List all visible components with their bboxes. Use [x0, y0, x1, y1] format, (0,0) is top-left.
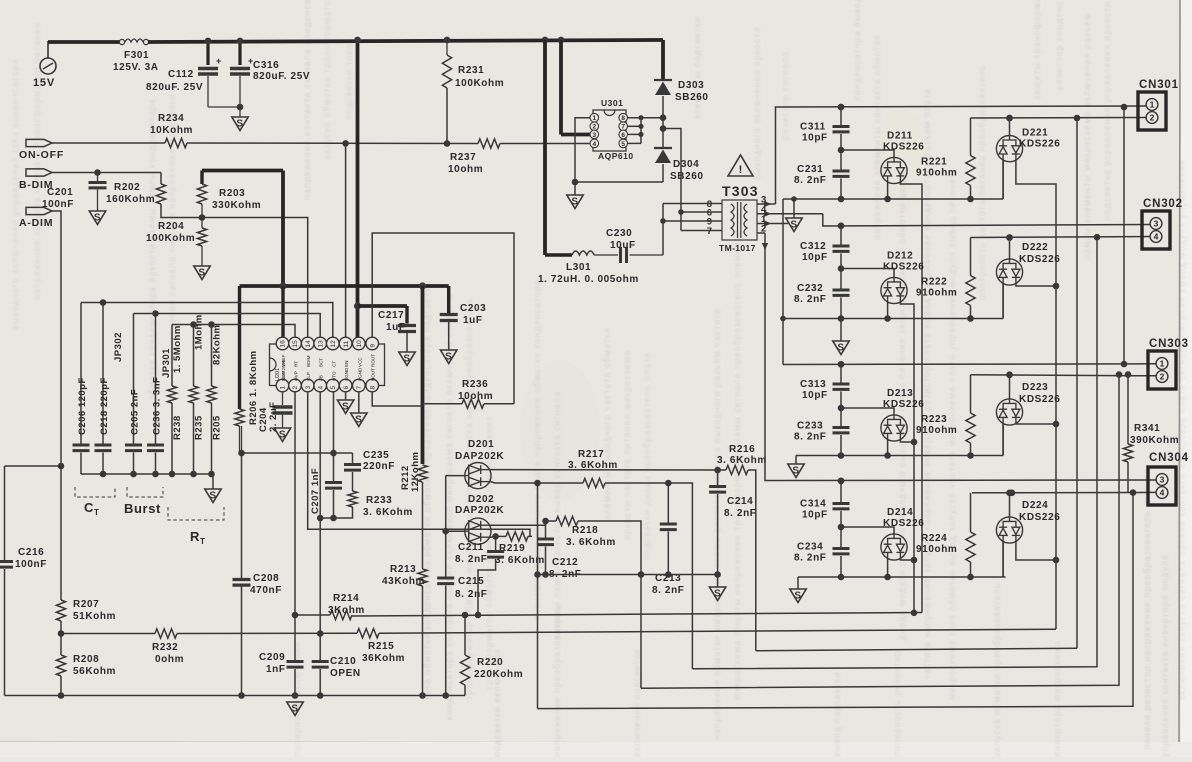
svg-text:R341: R341	[1134, 423, 1160, 434]
thick VCC vertical to U201 pin10	[356, 40, 360, 338]
svg-text:R222: R222	[921, 277, 947, 288]
svg-text:C230: C230	[606, 228, 632, 239]
capacitor C236 3.3nF	[155, 314, 157, 444]
wire pin8 NOUT	[372, 392, 422, 406]
svg-text:10: 10	[356, 340, 363, 348]
svg-text:9: 9	[369, 344, 376, 348]
svg-text:16: 16	[280, 340, 287, 348]
capacitor C210 OPEN	[312, 660, 329, 663]
connector ON-OFF	[26, 139, 52, 146]
svg-text:R203: R203	[219, 188, 245, 199]
svg-text:S: S	[236, 119, 243, 130]
fuse F301	[48, 40, 120, 44]
capacitor C312 10pF	[833, 245, 850, 248]
connector CN302	[1142, 211, 1170, 249]
wire D202 top-right to R218	[491, 521, 546, 525]
svg-text:160Kohm: 160Kohm	[106, 194, 155, 205]
svg-text:C232: C232	[797, 283, 823, 294]
RT rail to pin15	[172, 325, 295, 338]
capacitor C212 8.2nF	[545, 521, 547, 538]
svg-text:56Kohm: 56Kohm	[73, 666, 116, 677]
svg-text:C201: C201	[47, 187, 73, 198]
thick VREF rail	[240, 284, 449, 288]
wire D212 bottom-right to L1	[900, 302, 914, 613]
ground (bottom rail)	[294, 696, 296, 704]
svg-text:D223: D223	[1022, 382, 1048, 393]
svg-text:KDS226: KDS226	[883, 518, 924, 529]
wire D221 bottom-left	[1002, 160, 1004, 199]
svg-text:2: 2	[1160, 372, 1165, 382]
svg-text:R237: R237	[450, 152, 476, 163]
svg-text:T: T	[200, 537, 206, 546]
wire pin3 FB column	[308, 392, 530, 536]
svg-text:7: 7	[707, 226, 712, 237]
svg-text:PGND: PGND	[357, 367, 362, 381]
resistor R224 910ohm	[970, 493, 972, 532]
svg-text:подсветки тока: подсветки тока	[344, 43, 354, 120]
svg-text:C112: C112	[168, 69, 194, 80]
svg-text:390Kohm: 390Kohm	[1130, 435, 1179, 446]
svg-text:SEM2006: SEM2006	[281, 360, 287, 381]
ground rail bottom left	[5, 695, 466, 697]
wire D222 bottom-right joins va	[1016, 283, 1056, 286]
dual diode D213 KDS226	[841, 408, 894, 415]
capacitor C211 8.2nF	[495, 536, 497, 550]
thick branch to C217	[358, 304, 408, 308]
svg-text:C214: C214	[727, 496, 753, 507]
CT rail to pin12	[81, 303, 333, 338]
row2 rail	[783, 318, 1003, 320]
svg-text:C218 220pF: C218 220pF	[99, 377, 110, 435]
svg-text:ROUT: ROUT	[371, 354, 376, 367]
svg-text:D304: D304	[673, 159, 699, 170]
resistor R231 100Kohm	[444, 37, 451, 44]
resistor R236 10ohm	[423, 403, 463, 405]
resistor R220 220Kohm	[462, 612, 469, 619]
svg-text:910ohm: 910ohm	[916, 168, 957, 179]
svg-text:R214: R214	[333, 593, 359, 604]
wire row4 cap column	[840, 481, 842, 504]
wire BDIM net to pin14	[202, 218, 308, 338]
resistor R237 10ohm	[478, 139, 500, 148]
svg-text:D303: D303	[678, 80, 704, 91]
svg-text:вывод подсветки: вывод подсветки	[832, 672, 842, 757]
wire to L6	[537, 483, 539, 709]
resistor R208 56Kohm	[56, 655, 65, 676]
diode D304 SB260	[654, 147, 672, 149]
svg-text:D212: D212	[887, 251, 913, 262]
capacitor C233 8. 2nF	[840, 408, 842, 428]
svg-text:3. 6Kohm: 3. 6Kohm	[717, 455, 767, 466]
row4 return line from R224	[972, 491, 1156, 493]
resistor R341 390Kohm	[1127, 375, 1129, 445]
resistor R205 82Kohm	[211, 325, 213, 387]
ground (row4 rail)	[797, 577, 799, 589]
bank bottom rail	[81, 473, 213, 475]
optocoupler U301 AQP610	[593, 110, 626, 151]
U301 pin1 wire to ground and D304	[575, 118, 590, 182]
svg-text:4: 4	[592, 141, 596, 148]
row3 hot line	[783, 363, 1156, 366]
svg-text:S: S	[571, 197, 578, 208]
wire EN tap to pin11	[342, 140, 349, 147]
svg-text:5: 5	[621, 141, 625, 148]
svg-text:11: 11	[343, 340, 350, 347]
svg-text:CLP: CLP	[306, 372, 311, 381]
svg-text:R221: R221	[921, 157, 947, 168]
svg-text:8: 8	[369, 386, 376, 390]
svg-text:включения запуска сигнала пане: включения запуска сигнала панели контакт…	[1177, 159, 1187, 700]
svg-text:BDIM: BDIM	[306, 355, 311, 367]
svg-text:C211: C211	[458, 542, 484, 553]
svg-text:управления контакта инвертора: управления контакта инвертора модуля	[1160, 554, 1170, 757]
wire D303/D304 node to T303 pin6/7	[663, 129, 681, 231]
svg-text:R205: R205	[212, 415, 223, 440]
svg-text:36Kohm: 36Kohm	[362, 653, 405, 664]
svg-text:D222: D222	[1022, 242, 1048, 253]
wire vd return3 down	[641, 375, 1119, 689]
svg-text:12Kohm: 12Kohm	[410, 452, 421, 492]
wire D223 bottom-right joins va	[1016, 422, 1056, 425]
svg-text:1nF: 1nF	[266, 664, 286, 675]
svg-text:5: 5	[330, 386, 337, 390]
svg-text:R204: R204	[158, 221, 184, 232]
svg-text:R232: R232	[152, 642, 178, 653]
ground (U301 pin1 net)	[574, 182, 576, 195]
svg-text:43Kohm: 43Kohm	[382, 576, 425, 587]
wire D201 left to C215 column	[446, 475, 465, 477]
svg-text:панели резистор напряжение пре: панели резистор напряжение преобразовате…	[1142, 468, 1152, 750]
thick vertical to R212	[421, 286, 425, 464]
svg-text:10pF: 10pF	[802, 510, 828, 521]
wire C230 to T303 pins 8/9	[662, 204, 664, 256]
capacitor C230 10uF	[619, 247, 622, 263]
wire gnd line y574	[538, 574, 718, 576]
svg-text:!: !	[739, 164, 743, 176]
svg-text:L301: L301	[566, 262, 591, 273]
wire hot1 to row3 bridge	[1123, 107, 1125, 364]
wire pin4 column / C210	[319, 392, 321, 518]
svg-text:8. 2nF: 8. 2nF	[794, 294, 827, 305]
wire T303 pin2 to row4 hot	[757, 232, 765, 234]
capacitor C314 10pF	[833, 502, 850, 505]
thick feed to L301	[543, 40, 547, 255]
svg-text:DAP202K: DAP202K	[455, 451, 504, 462]
wire C208 column	[241, 453, 243, 578]
svg-text:2: 2	[1150, 113, 1155, 123]
capacitor C235 220nF	[352, 453, 354, 463]
wire vb return1 down	[1076, 118, 1078, 648]
wire ve return4 down to L6	[538, 493, 1134, 709]
svg-text:D224: D224	[1022, 500, 1048, 511]
svg-text:напряжение преобразователь: напряжение преобразователь	[552, 606, 562, 757]
svg-text:12: 12	[330, 340, 337, 348]
wire D224 bottom-right joins va	[1016, 541, 1056, 560]
svg-text:напряжение элементы контакта о: напряжение элементы контакта обмотки	[872, 34, 882, 240]
wire B-DIM	[52, 172, 161, 174]
svg-text:D202: D202	[468, 494, 494, 505]
resistor R213 43Kohm	[418, 569, 427, 586]
dual diode D223 KDS226	[1009, 375, 1011, 399]
svg-text:3. 6Kohm: 3. 6Kohm	[566, 537, 616, 548]
svg-text:элементы подсветки: элементы подсветки	[692, 16, 702, 120]
Burst rail to pin13	[134, 314, 321, 338]
wire D213 bottom-right joins v914	[900, 439, 914, 442]
15V input terminal	[40, 58, 56, 74]
wire D223 bottom-left	[1002, 423, 1004, 455]
wire T303 pin9	[663, 220, 715, 222]
svg-text:S: S	[794, 591, 801, 602]
svg-text:10ohm: 10ohm	[458, 391, 493, 402]
svg-text:2: 2	[292, 386, 299, 390]
svg-text:FB: FB	[319, 375, 324, 381]
svg-text:элементы выходного частота обм: элементы выходного частота обмотки	[602, 327, 612, 520]
svg-text:1: 1	[1160, 359, 1165, 369]
resistor R238 1.5Mohm	[171, 325, 173, 387]
IC U201 SEM2006	[270, 344, 385, 386]
svg-text:KDS226: KDS226	[1019, 254, 1060, 265]
svg-text:T303: T303	[722, 183, 759, 199]
svg-text:защиты лампы резистор вывод ко: защиты лампы резистор вывод контакта сиг…	[552, 391, 562, 640]
svg-text:KDS226: KDS226	[1019, 394, 1060, 405]
svg-text:JP302: JP302	[113, 332, 124, 362]
svg-text:микросхема тока обмотки вывод: микросхема тока обмотки вывод запуска ча…	[947, 172, 957, 700]
svg-text:C217: C217	[378, 310, 404, 321]
svg-text:R238: R238	[172, 415, 183, 440]
svg-text:51Kohm: 51Kohm	[73, 611, 116, 622]
svg-text:1Mohm: 1Mohm	[194, 314, 205, 350]
svg-text:8. 2nF: 8. 2nF	[724, 508, 757, 519]
svg-text:подсветки диода преобразовател: подсветки диода преобразователь плата	[642, 352, 652, 560]
ground (pin7 PGND)	[358, 392, 360, 413]
wire D214 bottom-right joins v914	[900, 558, 914, 560]
resistor R207 51Kohm	[56, 600, 65, 621]
svg-text:CN303: CN303	[1149, 338, 1189, 350]
svg-text:3. 6Kohm: 3. 6Kohm	[568, 460, 618, 471]
thick branch to U301 pin3	[542, 37, 549, 44]
svg-text:выходного включения яркости: выходного включения яркости	[752, 26, 762, 180]
svg-text:1: 1	[1150, 100, 1155, 110]
svg-text:3: 3	[305, 386, 312, 390]
dual diode D211 KDS226	[841, 150, 894, 158]
ground (C217)	[399, 352, 415, 366]
svg-text:D211: D211	[887, 131, 913, 142]
svg-text:конденсатора вывод: конденсатора вывод	[852, 0, 862, 100]
svg-text:D221: D221	[1022, 128, 1048, 139]
svg-text:C314: C314	[800, 499, 826, 510]
wire T303 pin6	[681, 211, 715, 213]
wire D201 top-right / R216 line	[491, 469, 718, 471]
wire D221 bottom-right to va	[1016, 160, 1056, 629]
svg-text:10Kohm: 10Kohm	[150, 125, 193, 136]
svg-text:S: S	[792, 466, 799, 477]
dual diode D202 DAP202K	[465, 518, 491, 544]
svg-text:15: 15	[292, 340, 299, 348]
capacitor C201 100nF	[97, 173, 99, 182]
resistor R203 330Kohm (thick feed from VREF)	[202, 169, 283, 173]
svg-text:C209: C209	[259, 652, 285, 663]
resistor R221 910ohm	[970, 118, 972, 156]
resistor R234 10Kohm	[52, 142, 165, 144]
row4 rail	[798, 576, 1006, 578]
resistor R216 3.6Kohm	[718, 469, 726, 471]
capacitor C218 220pF	[102, 303, 104, 444]
svg-text:R223: R223	[921, 414, 947, 425]
svg-text:C208: C208	[253, 573, 279, 584]
svg-text:3Kohm: 3Kohm	[328, 605, 365, 616]
svg-text:C236 3. 3nF: C236 3. 3nF	[152, 377, 163, 435]
connector CN303	[1148, 351, 1176, 389]
thick VREF vertical from R203 to VREF rail	[281, 171, 285, 287]
row3 rail	[796, 455, 1003, 457]
svg-text:S: S	[403, 354, 410, 365]
svg-text:C215: C215	[458, 576, 484, 587]
svg-text:+: +	[216, 56, 221, 66]
svg-text:1: 1	[280, 386, 287, 390]
svg-text:1: 1	[592, 115, 596, 122]
svg-text:910ohm: 910ohm	[916, 544, 957, 555]
capacitor C207 1nF	[333, 453, 335, 481]
resistor R214 3Kohm on L1	[295, 614, 330, 616]
connector B-DIM	[26, 169, 52, 176]
svg-text:NOUT: NOUT	[371, 368, 376, 381]
wire pin5 column to C207 node	[333, 392, 335, 453]
svg-text:KDS226: KDS226	[1019, 139, 1060, 150]
capacitor C216 100nF	[4, 466, 6, 560]
row3 return line from R223	[971, 375, 1157, 376]
svg-text:S: S	[94, 213, 101, 224]
svg-text:R233: R233	[366, 495, 392, 506]
svg-text:10pF: 10pF	[802, 133, 828, 144]
svg-text:15V: 15V	[33, 77, 55, 89]
svg-text:SB260: SB260	[675, 92, 709, 103]
wire L3 from R216 to return1/return2	[756, 648, 1077, 651]
svg-text:C203: C203	[460, 303, 486, 314]
capacitor C217 1uF	[398, 324, 416, 327]
wire T303 pin3 to row1 hot	[757, 203, 776, 205]
svg-text:лампы элементы микросхема вклю: лампы элементы микросхема включения разъ…	[1082, 13, 1092, 260]
svg-text:C: C	[84, 500, 94, 515]
svg-text:KDS226: KDS226	[883, 399, 924, 410]
wire row3 cap column	[840, 364, 842, 384]
wire A-DIM divider node	[58, 463, 65, 470]
capacitor C234 8. 2nF	[840, 527, 842, 549]
svg-text:8. 2nF: 8. 2nF	[794, 432, 827, 443]
svg-text:R213: R213	[390, 564, 416, 575]
svg-text:8. 2nF: 8. 2nF	[455, 554, 488, 565]
svg-text:S: S	[714, 589, 721, 600]
svg-text:10pF: 10pF	[802, 252, 828, 263]
svg-text:S: S	[209, 491, 216, 502]
svg-text:470nF: 470nF	[250, 585, 282, 596]
capacitor C204 2.2uF at pin1	[282, 392, 284, 405]
RT dashed bracket	[168, 507, 224, 520]
svg-text:R207: R207	[73, 599, 99, 610]
svg-text:220Kohm: 220Kohm	[474, 669, 523, 680]
svg-text:U301: U301	[601, 98, 623, 108]
svg-text:R: R	[190, 529, 200, 544]
svg-text:C312: C312	[800, 241, 826, 252]
dual diode D212 KDS226	[841, 269, 894, 278]
capacitor C232 8. 2nF	[840, 269, 842, 291]
wire D201 bottom-right / R217 line	[490, 481, 492, 483]
main 15V bus (thick)	[148, 40, 663, 42]
ground (C201)	[89, 211, 105, 225]
capacitor C203 1uF	[440, 313, 458, 316]
ground (row3 rail)	[795, 456, 797, 465]
resistor R202 160Kohm	[160, 173, 162, 185]
wire T303 pin4 to row2 hot	[757, 213, 823, 215]
svg-text:CN302: CN302	[1143, 198, 1183, 210]
resistor R233 3.6Kohm	[348, 491, 357, 507]
svg-text:резистор конденсатора: резистор конденсатора	[1054, 0, 1064, 90]
svg-text:C207 1nF: C207 1nF	[310, 468, 321, 514]
dual diode D224 KDS226	[1009, 493, 1011, 517]
resistor R232 0ohm line L2	[61, 633, 155, 635]
connector CN301	[1138, 92, 1166, 130]
svg-text:R220: R220	[477, 657, 503, 668]
svg-text:10pF: 10pF	[802, 390, 828, 401]
svg-text:Burst: Burst	[124, 501, 161, 516]
svg-text:82Kohm: 82Kohm	[212, 325, 223, 365]
svg-text:S: S	[445, 352, 452, 363]
svg-text:R236: R236	[462, 379, 488, 390]
svg-text:S: S	[355, 415, 362, 426]
svg-text:C316: C316	[253, 60, 279, 71]
svg-text:VCC: VCC	[357, 357, 362, 367]
svg-text:1uF: 1uF	[463, 315, 483, 326]
svg-text:R215: R215	[368, 641, 394, 652]
svg-text:C313: C313	[800, 379, 826, 390]
svg-text:7: 7	[356, 386, 363, 390]
svg-text:C210: C210	[330, 656, 356, 667]
resistor R218 3.6Kohm	[546, 520, 557, 522]
svg-text:C235: C235	[363, 450, 389, 461]
svg-text:8: 8	[621, 115, 625, 122]
wire pin2 column / C209	[294, 392, 296, 615]
ground (pin6 SGND)	[345, 392, 347, 400]
svg-text:C212: C212	[552, 557, 578, 568]
svg-text:полярность частота питания пре: полярность частота питания преобразовате…	[977, 64, 987, 300]
svg-text:8. 2nF: 8. 2nF	[652, 585, 685, 596]
svg-text:C205 2nF: C205 2nF	[130, 389, 141, 435]
svg-text:KDS226: KDS226	[883, 142, 924, 153]
U301 right pins bus	[628, 117, 664, 119]
capacitor C112 820uF 25V	[206, 41, 209, 65]
capacitor C208 470nF	[233, 578, 251, 581]
dual diode D222 KDS226	[1009, 238, 1011, 260]
capacitor C215 8.2nF	[437, 577, 454, 580]
svg-text:CN301: CN301	[1139, 79, 1179, 91]
connector CN304	[1148, 467, 1176, 505]
row1 return line from R221	[971, 117, 1147, 120]
svg-text:подсветки управления управлени: подсветки управления управления яркости	[1102, 1, 1112, 220]
svg-text:C233: C233	[797, 421, 823, 432]
resistor R206 1.8Kohm	[235, 409, 244, 426]
capacitor C214 8.2nF	[717, 470, 719, 485]
wire D211 bottom-right to L1	[900, 182, 922, 613]
svg-text:TM-1017: TM-1017	[719, 243, 756, 253]
svg-text:4: 4	[317, 386, 324, 390]
ground (bank rail)	[212, 474, 214, 489]
resistor R212 12Kohm	[418, 465, 427, 482]
svg-text:CT: CT	[331, 361, 336, 367]
svg-text:OPEN: OPEN	[330, 668, 361, 679]
CT dashed bracket	[75, 487, 115, 497]
connector A-DIM	[26, 207, 52, 214]
wire A-DIM down left side	[52, 211, 61, 600]
svg-text:JP301: JP301	[161, 348, 172, 378]
